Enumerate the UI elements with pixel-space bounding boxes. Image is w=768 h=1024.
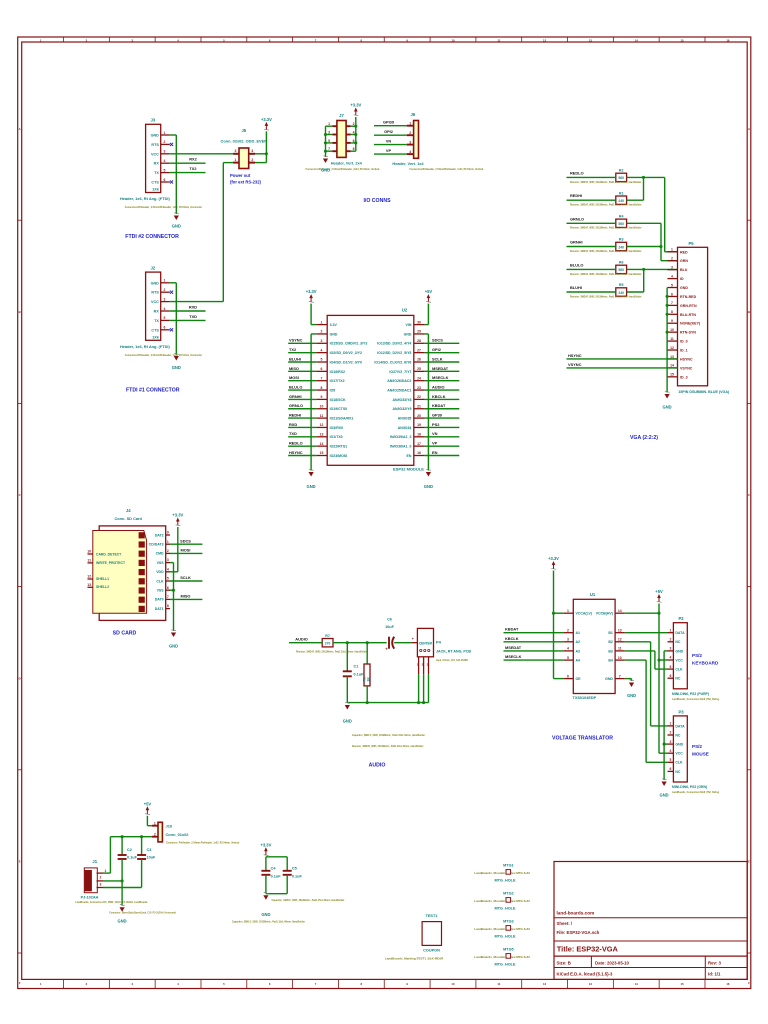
svg-text:13: 13 xyxy=(670,355,674,359)
svg-text:+5V: +5V xyxy=(144,801,152,806)
svg-text:NC: NC xyxy=(675,677,681,681)
svg-text:15PIN DSUBMIN. BLUE (VGA): 15PIN DSUBMIN. BLUE (VGA) xyxy=(678,390,730,394)
svg-text:KBDAT: KBDAT xyxy=(432,403,446,408)
svg-text:Capacitor_SMD:C_0805_2012Metri: Capacitor_SMD:C_0805_2012Metric_Pad1.15x… xyxy=(272,899,345,902)
svg-text:IO22/RTS1: IO22/RTS1 xyxy=(330,445,348,449)
svg-text:Resistor_SMD:R_0805_2012Metric: Resistor_SMD:R_0805_2012Metric_Pad1.20x1… xyxy=(570,204,642,207)
svg-text:TXD: TXD xyxy=(189,314,197,319)
wire J7 even pins to +3.3V bus xyxy=(351,117,356,151)
wire U2 right pin22 KBCLK xyxy=(425,398,460,400)
wire BLU resistors to P5 pin3 xyxy=(626,269,677,292)
svg-text:2: 2 xyxy=(321,330,323,334)
connector P4 audio jack xyxy=(411,628,471,674)
svg-text:DATA: DATA xyxy=(675,631,685,635)
wire J6 pin4 VP xyxy=(374,153,407,155)
svg-text:3: 3 xyxy=(100,882,102,886)
svg-text:22: 22 xyxy=(417,395,421,399)
svg-text:15: 15 xyxy=(681,982,685,986)
svg-text:LandBoards_MountingHoles:MTG-6: LandBoards_MountingHoles:MTG-6-32 xyxy=(474,955,530,959)
svg-text:HSYNC: HSYNC xyxy=(680,357,693,361)
svg-text:SD CARD: SD CARD xyxy=(113,630,137,636)
svg-text:12: 12 xyxy=(670,346,674,350)
svg-text:A2: A2 xyxy=(576,640,581,644)
wire J2 pin4 RXD xyxy=(170,310,206,312)
svg-text:GND: GND xyxy=(151,134,160,138)
svg-text:BLUHI: BLUHI xyxy=(289,356,301,361)
svg-text:Connectors/PinHeader_2.54mm/Pi: Connectors/PinHeader_2.54mm/PinHeader_1x… xyxy=(125,206,202,209)
wire J7 odd pins to GND bus xyxy=(326,126,333,157)
svg-text:11: 11 xyxy=(87,559,91,563)
junction P2 VCC xyxy=(657,658,660,661)
svg-text:3.3V: 3.3V xyxy=(330,323,338,327)
junction RED net xyxy=(642,176,645,179)
svg-text:Rev: 3: Rev: 3 xyxy=(708,960,722,965)
svg-text:10: 10 xyxy=(87,550,91,554)
svg-text:(for ext RS-232): (for ext RS-232) xyxy=(230,179,262,184)
svg-text:24: 24 xyxy=(417,376,421,380)
ground symbol below J7 xyxy=(323,156,328,163)
wire J3 pin4 RX2 xyxy=(170,162,206,164)
svg-text:GND: GND xyxy=(169,644,178,649)
svg-text:GND: GND xyxy=(343,719,352,724)
wire REDLO into R2 xyxy=(567,176,617,178)
ground symbol below U2 right xyxy=(426,469,431,476)
svg-text:RX: RX xyxy=(154,162,160,166)
svg-text:J6: J6 xyxy=(410,112,415,117)
svg-text:J5: J5 xyxy=(241,128,246,133)
svg-text:Resistor_SMD:R_0805_2012Metric: Resistor_SMD:R_0805_2012Metric_Pad1.20x1… xyxy=(352,745,424,748)
svg-text:KBDAT: KBDAT xyxy=(505,627,519,632)
wire U1 A2 KBCLK xyxy=(504,641,564,643)
wire U2 right pin18 VN xyxy=(425,436,460,438)
svg-text:FTDI #2 CONNECTOR: FTDI #2 CONNECTOR xyxy=(125,234,179,240)
svg-text:MTG_HOLE: MTG_HOLE xyxy=(494,879,516,883)
svg-text:IO21/SDA/RX1: IO21/SDA/RX1 xyxy=(330,417,354,421)
svg-text:TX2: TX2 xyxy=(289,347,297,352)
svg-text:18: 18 xyxy=(417,433,421,437)
wire J1 pin3 xyxy=(103,887,142,889)
wire +3.3V to J4 VDD xyxy=(170,527,178,572)
svg-text:CLK: CLK xyxy=(675,668,683,672)
svg-text:D: D xyxy=(19,676,21,680)
svg-text:VCC: VCC xyxy=(675,752,683,756)
ground symbol PS/2 xyxy=(662,779,667,786)
svg-text:4: 4 xyxy=(164,159,166,163)
svg-text:Resistor_SMD:R_0805_2012Metric: Resistor_SMD:R_0805_2012Metric_Pad1.20x1… xyxy=(570,227,642,230)
svg-text:2: 2 xyxy=(154,832,156,836)
svg-text:GRNLO: GRNLO xyxy=(570,216,584,221)
svg-text:10: 10 xyxy=(451,982,455,986)
svg-text:JACK, RT ANG, PCB: JACK, RT ANG, PCB xyxy=(436,650,471,654)
svg-text:6: 6 xyxy=(164,178,166,182)
wire U2 left pin9 GRNHI xyxy=(288,398,316,400)
wire REDHI into R1 xyxy=(567,199,617,201)
svg-text:14: 14 xyxy=(635,982,639,986)
wire GRNLO into R4 xyxy=(567,222,617,224)
svg-text:5: 5 xyxy=(167,577,169,581)
svg-text:PS/2: PS/2 xyxy=(692,653,702,658)
svg-text:PS2: PS2 xyxy=(432,422,440,427)
svg-text:GND: GND xyxy=(660,793,669,798)
svg-text:HSYNC: HSYNC xyxy=(289,450,303,455)
svg-text:Resistor_SMD:R_0805_2012Metric: Resistor_SMD:R_0805_2012Metric_Pad1.20x1… xyxy=(570,181,642,184)
wire U2 pin2 GND down xyxy=(311,334,316,471)
svg-text:Header, Vert. 2x4: Header, Vert. 2x4 xyxy=(331,161,363,166)
wire U2 left pin6 MISO xyxy=(288,370,316,372)
wire J2 VCC from J5 xyxy=(170,301,224,303)
svg-text:E: E xyxy=(19,860,21,864)
svg-text:U2: U2 xyxy=(402,308,408,313)
wire PS/2 GND bus xyxy=(664,651,667,780)
svg-text:PS/2: PS/2 xyxy=(692,744,702,749)
svg-text:27: 27 xyxy=(417,348,421,352)
wire J4 MOSI xyxy=(170,552,202,554)
svg-text:MSEDAT: MSEDAT xyxy=(432,366,449,371)
svg-text:BLULO: BLULO xyxy=(289,384,302,389)
wire U2 right pin16 EN xyxy=(425,455,460,457)
svg-text:5: 5 xyxy=(671,283,673,287)
svg-text:GPI39: GPI39 xyxy=(383,120,395,125)
junction C2 bottom pin2 xyxy=(121,879,124,882)
svg-text:+5V: +5V xyxy=(655,589,663,594)
svg-text:1: 1 xyxy=(567,609,569,613)
svg-text:1X6: 1X6 xyxy=(152,188,159,192)
wire GRN resistors to P5 pin2 xyxy=(626,223,677,260)
wire U2 left pin7 MOSI xyxy=(288,380,316,382)
junction BLU net xyxy=(642,268,645,271)
svg-text:IO4/SD_D1/V2_0/Y0: IO4/SD_D1/V2_0/Y0 xyxy=(330,360,362,364)
svg-text:7: 7 xyxy=(671,301,673,305)
wire U1 A1 KBDAT xyxy=(504,632,564,634)
bypass cap footprint texts xyxy=(232,899,345,924)
svg-text:COUPON: COUPON xyxy=(423,949,440,953)
svg-text:J1: J1 xyxy=(92,859,97,864)
svg-text:8: 8 xyxy=(321,386,323,390)
svg-text:IO13/SD_D3/V2_4/Y4: IO13/SD_D3/V2_4/Y4 xyxy=(377,342,411,346)
svg-text:0.1uF: 0.1uF xyxy=(271,874,282,878)
junction R8 tap xyxy=(366,641,369,644)
wire B3 to P2 CLK xyxy=(625,651,668,669)
connector J7 (Header 2x4) xyxy=(306,113,380,171)
resistor R5 xyxy=(570,283,642,298)
connector J3 (Header 1x6 FTDI #2) xyxy=(120,118,202,210)
svg-text:11: 11 xyxy=(320,414,324,418)
svg-text:1: 1 xyxy=(164,131,166,135)
svg-text:2: 2 xyxy=(167,549,169,553)
wire U1 A3 MSEDAT xyxy=(504,650,564,652)
svg-text:560: 560 xyxy=(618,176,624,180)
svg-text:R4: R4 xyxy=(619,215,624,219)
svg-text:MOUSE: MOUSE xyxy=(692,752,709,757)
wire J4 MISO xyxy=(170,598,202,600)
svg-text:CTS: CTS xyxy=(151,328,159,332)
connector P5 VGA DB15 body xyxy=(667,241,730,394)
svg-text:DAT2: DAT2 xyxy=(155,533,164,537)
svg-text:GRNHI: GRNHI xyxy=(570,240,583,245)
svg-text:SHELL2: SHELL2 xyxy=(96,585,109,589)
svg-text:14: 14 xyxy=(320,442,324,446)
svg-text:C6: C6 xyxy=(387,617,392,621)
wire U1 A4 MSECLK xyxy=(504,659,564,661)
svg-text:R6: R6 xyxy=(619,261,624,265)
junction C1 tap xyxy=(346,641,349,644)
svg-text:WRITE_PROTECT: WRITE_PROTECT xyxy=(96,561,126,565)
svg-text:KEYBOARD: KEYBOARD xyxy=(692,661,719,666)
svg-text:A4: A4 xyxy=(576,659,581,663)
svg-text:25: 25 xyxy=(417,367,421,371)
wire U2 right pin25 MSEDAT xyxy=(425,370,460,372)
junction J4 vss xyxy=(172,589,175,592)
svg-text:RTS: RTS xyxy=(151,291,159,295)
connector J2 (Header 1x6 FTDI #1) xyxy=(120,265,202,357)
svg-text:Date: 2023-05-10: Date: 2023-05-10 xyxy=(595,960,630,965)
resistor R6 xyxy=(570,261,642,276)
svg-text:14: 14 xyxy=(618,609,622,613)
wire U2 right pin27 GPI2 xyxy=(425,352,460,354)
IC U1 voltage translator body xyxy=(563,592,625,700)
svg-text:+3.3V: +3.3V xyxy=(172,513,183,518)
svg-text:15: 15 xyxy=(670,373,674,377)
svg-text:AN/IO25/DAC1: AN/IO25/DAC1 xyxy=(387,388,411,392)
wire U2 right pin24 MSECLK xyxy=(425,380,460,382)
junction VCCB xyxy=(657,612,660,615)
svg-text:LandBoards_MountingHoles:MTG-6: LandBoards_MountingHoles:MTG-6-32 xyxy=(474,871,530,875)
svg-text:CENTER: CENTER xyxy=(419,642,433,646)
svg-text:IO2/SD_D0/V2_2/Y2: IO2/SD_D0/V2_2/Y2 xyxy=(330,351,362,355)
capacitor C6 polarized xyxy=(385,617,414,651)
svg-text:P5: P5 xyxy=(688,241,694,246)
svg-text:16: 16 xyxy=(417,451,421,455)
svg-text:560: 560 xyxy=(618,268,624,272)
svg-text:RTN-SYN: RTN-SYN xyxy=(680,331,696,335)
svg-text:23: 23 xyxy=(417,386,421,390)
J4 right pins xyxy=(149,531,170,611)
svg-text:MISO: MISO xyxy=(181,594,191,599)
wire VSYNC to P5 pin14 xyxy=(567,367,678,369)
wire U2 right pin28 SDCS xyxy=(425,342,460,344)
svg-text:Conn_01x02: Conn_01x02 xyxy=(166,832,190,837)
svg-text:VCC: VCC xyxy=(675,658,683,662)
svg-text:GPI2: GPI2 xyxy=(432,347,442,352)
svg-text:AUDIO: AUDIO xyxy=(295,637,308,642)
junction PS/2 gnd xyxy=(663,743,666,746)
svg-text:AUDIO: AUDIO xyxy=(369,763,386,769)
svg-text:SCLK: SCLK xyxy=(432,356,443,361)
svg-text:AN/IO32/Y9: AN/IO32/Y9 xyxy=(393,407,412,411)
svg-text:AN/IO33/Y8: AN/IO33/Y8 xyxy=(393,398,412,402)
svg-text:MTG_HOLE: MTG_HOLE xyxy=(494,907,516,911)
wire J3 pin5 TX2 xyxy=(170,172,206,174)
svg-text:I/O CONNS: I/O CONNS xyxy=(363,198,391,204)
capacitor C1 xyxy=(343,643,364,703)
no-connect J2 pin6 xyxy=(170,328,173,331)
connector J4 SD card body xyxy=(93,508,166,621)
svg-text:AUDIO: AUDIO xyxy=(432,384,445,389)
svg-text:3: 3 xyxy=(669,647,671,651)
svg-text:KBCLK: KBCLK xyxy=(432,394,446,399)
svg-text:3: 3 xyxy=(321,339,323,343)
svg-text:C: C xyxy=(19,493,21,497)
svg-text:CMD: CMD xyxy=(156,552,164,556)
capacitor C4 xyxy=(261,857,281,894)
svg-text:C3: C3 xyxy=(147,848,152,852)
svg-text:1: 1 xyxy=(409,122,411,126)
svg-text:ID_0: ID_0 xyxy=(680,340,688,344)
svg-text:RX: RX xyxy=(154,310,160,314)
svg-text:10: 10 xyxy=(618,656,622,660)
svg-text:J7: J7 xyxy=(339,113,344,118)
svg-text:4: 4 xyxy=(167,567,169,571)
IC U2 ESP32 MODULE body xyxy=(327,308,424,472)
wire U2 right pin21 KBDAT xyxy=(425,408,460,410)
junction C2 top xyxy=(121,835,124,838)
svg-text:MTG5: MTG5 xyxy=(503,948,514,952)
wire P4 pins to ground bus xyxy=(347,674,428,702)
svg-text:IO23/MOSI: IO23/MOSI xyxy=(330,454,348,458)
mounting hole MTG5 xyxy=(474,948,530,967)
svg-text:1K: 1K xyxy=(367,677,371,682)
svg-text:OE: OE xyxy=(576,677,582,681)
svg-text:2: 2 xyxy=(164,288,166,292)
section label PS/2 KEYBOARD xyxy=(692,653,719,666)
svg-text:IO14/SD_CLK/V2_6/Y6: IO14/SD_CLK/V2_6/Y6 xyxy=(374,360,411,364)
svg-text:KBCLK: KBCLK xyxy=(505,636,519,641)
svg-text:VSYNC: VSYNC xyxy=(680,366,693,370)
svg-text:11: 11 xyxy=(670,337,674,341)
svg-text:28: 28 xyxy=(417,339,421,343)
svg-text:B1: B1 xyxy=(608,631,613,635)
svg-text:6: 6 xyxy=(567,674,569,678)
svg-text:R1: R1 xyxy=(619,191,624,195)
svg-text:C1: C1 xyxy=(354,665,359,669)
svg-text:0.1uF: 0.1uF xyxy=(292,874,303,878)
svg-text:5: 5 xyxy=(669,665,671,669)
wire J6 pin1 GPI39 xyxy=(374,125,407,127)
wire U2 right pin19 PS2 xyxy=(425,426,460,428)
no-connect J3 pin2 xyxy=(170,143,173,146)
svg-text:RED: RED xyxy=(680,250,688,254)
connector P2 PS/2 keyboard xyxy=(668,616,720,701)
svg-text:GRNHI: GRNHI xyxy=(289,394,302,399)
svg-text:Resistor_SMD:R_0805_2012Metric: Resistor_SMD:R_0805_2012Metric_Pad1.20x1… xyxy=(570,250,642,253)
svg-text:MTG3: MTG3 xyxy=(503,920,514,924)
svg-text:RXD: RXD xyxy=(189,304,197,309)
svg-text:B4: B4 xyxy=(608,659,613,663)
svg-text:240: 240 xyxy=(618,245,624,249)
svg-text:9: 9 xyxy=(167,531,169,535)
svg-text:21: 21 xyxy=(417,404,421,408)
svg-text:6: 6 xyxy=(669,767,671,771)
svg-text:270: 270 xyxy=(325,642,331,646)
net label AUDIO wire xyxy=(289,642,317,644)
svg-text:VN: VN xyxy=(432,431,438,436)
svg-text:DATA: DATA xyxy=(675,724,685,728)
svg-text:15: 15 xyxy=(681,38,685,42)
svg-text:10uF: 10uF xyxy=(385,625,395,629)
svg-text:MTG1: MTG1 xyxy=(503,864,514,868)
svg-text:BLUHI: BLUHI xyxy=(570,285,582,290)
svg-text:2: 2 xyxy=(100,876,102,880)
svg-text:REDLO: REDLO xyxy=(289,441,303,446)
svg-text:10: 10 xyxy=(670,328,674,332)
svg-text:8: 8 xyxy=(671,310,673,314)
svg-text:10: 10 xyxy=(451,38,455,42)
svg-text:3: 3 xyxy=(669,740,671,744)
svg-text:U1: U1 xyxy=(590,592,596,597)
svg-text:C5: C5 xyxy=(292,867,297,871)
svg-text:GRN-RTN: GRN-RTN xyxy=(680,304,697,308)
svg-text:1: 1 xyxy=(321,320,323,324)
svg-text:12: 12 xyxy=(543,38,547,42)
svg-text:VOLTAGE TRANSLATOR: VOLTAGE TRANSLATOR xyxy=(552,736,613,742)
svg-text:240: 240 xyxy=(618,199,624,203)
wire U2 right pin17 VP xyxy=(425,445,460,447)
svg-text:BLU-RTN: BLU-RTN xyxy=(680,313,696,317)
svg-text:13: 13 xyxy=(589,982,593,986)
svg-text:IO16/RX2: IO16/RX2 xyxy=(330,370,345,374)
no-connect J3 pin6 xyxy=(170,180,173,183)
resistor R8 xyxy=(362,643,370,703)
svg-text:R2: R2 xyxy=(619,169,624,173)
wire J1 pin1 to +5 bus xyxy=(103,837,152,873)
svg-text:GND: GND xyxy=(627,693,636,698)
svg-text:5: 5 xyxy=(164,316,166,320)
svg-text:3: 3 xyxy=(164,150,166,154)
svg-text:+5V: +5V xyxy=(425,289,433,294)
svg-text:Connector_PinHeader_2.54mm:Pin: Connector_PinHeader_2.54mm:PinHeader_1x0… xyxy=(166,841,240,844)
junction C3 top xyxy=(140,835,143,838)
svg-text:R7: R7 xyxy=(325,634,330,638)
svg-text:30: 30 xyxy=(417,320,421,324)
junction GRN net xyxy=(659,245,662,248)
svg-text:CD/DAT3: CD/DAT3 xyxy=(149,543,164,547)
svg-text:ID_1: ID_1 xyxy=(680,349,688,353)
ground symbol below J3 xyxy=(174,213,179,220)
capacitor C3 xyxy=(137,837,156,888)
junction U1 VCCA xyxy=(552,612,555,615)
wire U2 left pin15 HSYNC xyxy=(288,455,316,457)
wire J3 pin1 to GND xyxy=(170,135,177,214)
svg-text:P2: P2 xyxy=(678,616,684,621)
svg-text:KiCad E.D.A. kicad (5.1.5)-3: KiCad E.D.A. kicad (5.1.5)-3 xyxy=(557,971,613,976)
svg-text:Sheet: /: Sheet: / xyxy=(557,921,573,926)
svg-text:5: 5 xyxy=(567,656,569,660)
svg-text:13: 13 xyxy=(618,628,622,632)
mounting hole MTG1 xyxy=(474,864,530,883)
svg-text:Jack_3.5mm_CUI_SJ1-3523N: Jack_3.5mm_CUI_SJ1-3523N xyxy=(436,660,468,662)
ground symbol below U1 xyxy=(629,680,634,687)
svg-text:26: 26 xyxy=(417,358,421,362)
svg-text:MISO: MISO xyxy=(289,366,299,371)
wire U2 left pin8 BLULO xyxy=(288,389,316,391)
svg-text:6: 6 xyxy=(669,674,671,678)
svg-text:A3: A3 xyxy=(576,649,581,653)
svg-text:Power out: Power out xyxy=(230,173,251,178)
svg-text:VP: VP xyxy=(386,148,392,153)
svg-text:4: 4 xyxy=(669,656,671,660)
svg-text:DAT0: DAT0 xyxy=(155,598,164,602)
wire VCC J3 pin3 to J5 pin3 xyxy=(170,153,233,155)
svg-text:IO3/RX0: IO3/RX0 xyxy=(330,426,343,430)
audio footprint texts xyxy=(352,734,425,748)
svg-text:B2: B2 xyxy=(608,640,613,644)
svg-text:GND: GND xyxy=(680,286,688,290)
svg-text:3: 3 xyxy=(164,297,166,301)
svg-text:Connectors/PinHeader_2.54mm/Pi: Connectors/PinHeader_2.54mm/PinHeader_1x… xyxy=(125,354,202,357)
wire +5V to U1 VCCB and PS/2 VCC pins xyxy=(625,604,668,754)
wire +5V to J10 pin1 xyxy=(147,816,151,826)
svg-text:VIN: VIN xyxy=(406,323,412,327)
